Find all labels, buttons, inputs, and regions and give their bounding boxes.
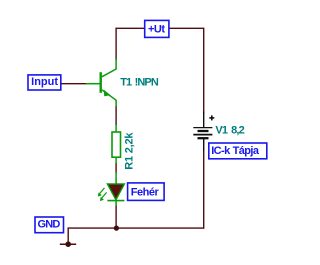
LED D1 — [98, 172, 125, 206]
svg-text:R1 2,2k: R1 2,2k — [123, 132, 135, 170]
wire emitter to resistor — [115, 106, 117, 125]
label box Fehér — [128, 183, 165, 201]
wire resistor to LED — [115, 163, 117, 173]
ground — [60, 241, 76, 247]
svg-text:V1 8,2: V1 8,2 — [215, 125, 244, 137]
label box +Ut — [145, 20, 169, 37]
svg-text:Input: Input — [31, 76, 58, 88]
wire top rail collector to battery — [116, 27, 204, 29]
transistor T1 — [86, 59, 116, 107]
wire left rail down to transistor collector — [115, 28, 117, 60]
wire base from Input box to transistor — [61, 83, 86, 85]
battery V1 — [193, 112, 214, 151]
label box GND — [35, 217, 64, 233]
wire bottom rail — [68, 227, 204, 229]
wire ground drop — [67, 227, 69, 244]
svg-text:IC-k Tápja: IC-k Tápja — [211, 145, 260, 157]
wire right rail down to battery top — [203, 28, 205, 113]
svg-text:T1 !NPN: T1 !NPN — [120, 77, 159, 89]
resistor R1 — [112, 125, 121, 164]
label box IC-k Tápja — [209, 143, 267, 159]
junction node at LED bottom — [114, 226, 119, 231]
svg-text:+Ut: +Ut — [148, 23, 165, 35]
wire battery bottom to bottom rail — [203, 150, 205, 229]
svg-text:Fehér: Fehér — [131, 187, 160, 199]
wire LED bottom to bottom rail — [115, 205, 117, 228]
svg-text:GND: GND — [37, 218, 60, 230]
label box Input — [28, 75, 61, 90]
